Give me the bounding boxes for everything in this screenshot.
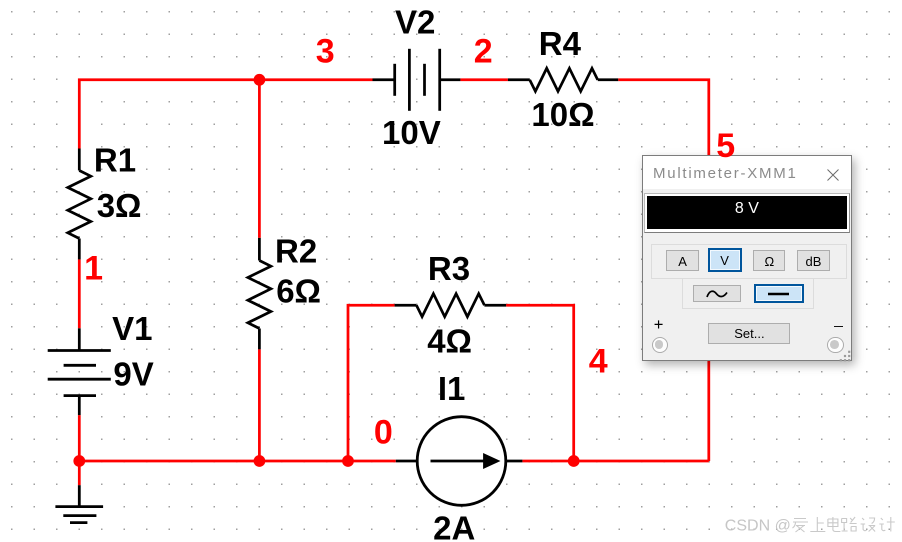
svg-text:R3: R3 [428, 250, 470, 287]
svg-text:R4: R4 [539, 25, 582, 62]
svg-text:10V: 10V [382, 114, 441, 151]
svg-text:V1: V1 [112, 310, 152, 347]
svg-text:R2: R2 [275, 233, 317, 270]
svg-text:10Ω: 10Ω [531, 96, 594, 133]
svg-text:R1: R1 [94, 141, 136, 178]
svg-text:I1: I1 [438, 370, 466, 407]
svg-text:V2: V2 [395, 4, 435, 41]
svg-text:4Ω: 4Ω [427, 322, 472, 359]
svg-text:9V: 9V [113, 356, 153, 393]
svg-text:3Ω: 3Ω [97, 187, 142, 224]
svg-text:6Ω: 6Ω [276, 273, 321, 310]
svg-text:CSDN @: CSDN @ [725, 518, 791, 535]
svg-text:2A: 2A [433, 510, 475, 542]
